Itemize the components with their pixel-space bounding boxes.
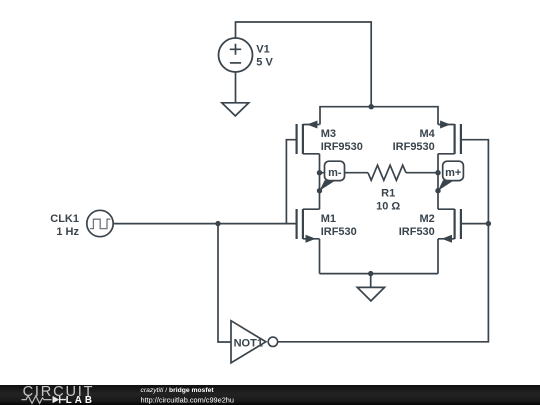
wire to bottom ground xyxy=(370,274,372,288)
svg-text:LAB: LAB xyxy=(66,395,95,405)
logo CircuitLab xyxy=(22,384,95,405)
wire right bridge node xyxy=(437,154,439,209)
ground bottom xyxy=(357,287,384,301)
node dot bottom rail xyxy=(368,271,373,276)
label V1 value xyxy=(256,44,273,69)
svg-text:m+: m+ xyxy=(445,167,461,179)
svg-text:M3: M3 xyxy=(321,128,336,140)
voltage source V1 xyxy=(219,38,253,72)
label R1 value xyxy=(376,187,400,212)
wire top rail xyxy=(320,107,438,125)
svg-text:http://circuitlab.com/c99e2hu: http://circuitlab.com/c99e2hu xyxy=(141,396,234,405)
svg-text:IRF9530: IRF9530 xyxy=(321,141,363,153)
svg-text:V1: V1 xyxy=(256,44,269,56)
label M1 xyxy=(321,213,357,238)
ground under V1 xyxy=(222,103,249,116)
svg-text:IRF530: IRF530 xyxy=(321,226,357,238)
transistor M4 (PMOS) xyxy=(438,121,461,155)
label M2 xyxy=(399,213,435,238)
label M3 xyxy=(321,128,363,153)
inverter NOT1 xyxy=(231,321,278,363)
label M4 xyxy=(393,128,436,153)
transistor M2 (NMOS) xyxy=(438,209,461,243)
transistor M3 (PMOS) xyxy=(297,121,320,155)
footer bar xyxy=(0,385,540,405)
svg-text:NOT1: NOT1 xyxy=(234,337,263,349)
resistor R1 xyxy=(320,165,439,180)
label CLK1 value xyxy=(50,213,79,238)
svg-text:R1: R1 xyxy=(381,187,395,199)
svg-text:m-: m- xyxy=(328,167,342,179)
svg-text:M2: M2 xyxy=(420,213,435,225)
node dot CLK branch xyxy=(215,221,220,226)
wire M2 source down xyxy=(437,239,439,274)
wire left bridge node xyxy=(319,154,321,209)
svg-text:M4: M4 xyxy=(420,128,436,140)
wire M1 source down xyxy=(319,239,321,274)
wire M2 gate xyxy=(461,223,489,225)
clock source CLK1 xyxy=(87,210,113,236)
node dot on top rail xyxy=(369,104,374,109)
wire V1 to ground xyxy=(235,72,237,103)
node dot m+ tap xyxy=(435,188,440,193)
svg-text:IRF9530: IRF9530 xyxy=(393,141,435,153)
wire V1 top to rail xyxy=(236,22,372,107)
transistor M1 (NMOS) xyxy=(297,209,320,243)
svg-text:M1: M1 xyxy=(321,213,336,225)
node dot right gates xyxy=(486,221,491,226)
wire bottom rail xyxy=(320,273,439,275)
svg-text:1 Hz: 1 Hz xyxy=(56,226,79,238)
net flag m- xyxy=(320,161,345,191)
node dot m- tap xyxy=(317,188,322,193)
svg-text:5 V: 5 V xyxy=(256,56,273,68)
svg-text:10 Ω: 10 Ω xyxy=(376,200,400,212)
wire M3 gate riser xyxy=(286,140,296,224)
svg-text:CLK1: CLK1 xyxy=(50,213,79,225)
net flag m+ xyxy=(438,161,463,191)
svg-text:crazytiti / bridge mosfet: crazytiti / bridge mosfet xyxy=(141,387,215,394)
node dot R1 right xyxy=(435,170,440,175)
wire CLK1 output to gates xyxy=(113,223,296,225)
wire NOT1 input xyxy=(218,224,231,342)
node dot R1 left xyxy=(317,170,322,175)
wire NOT1 output to right gates xyxy=(278,140,489,342)
svg-text:IRF530: IRF530 xyxy=(399,226,435,238)
